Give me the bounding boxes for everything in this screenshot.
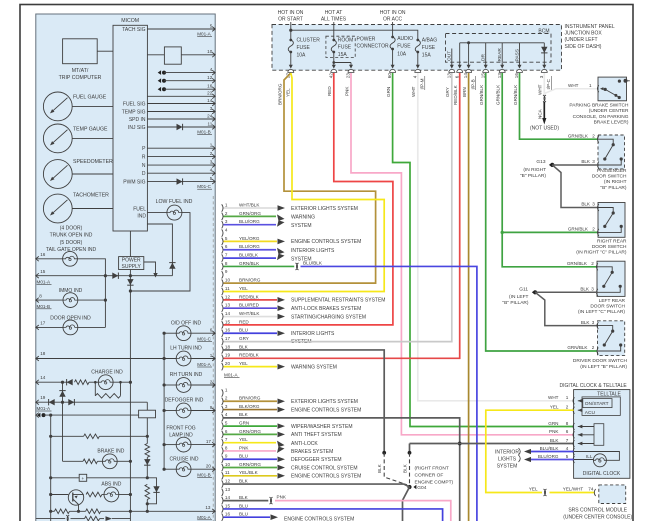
- svg-text:BLK/ORG: BLK/ORG: [239, 404, 260, 409]
- svg-text:1: 1: [210, 143, 213, 148]
- fuse ROOM FUSE 15A: [332, 39, 335, 42]
- svg-text:CORNER OF: CORNER OF: [415, 472, 444, 478]
- MT/AT trip computer block: [63, 39, 98, 64]
- svg-text:2: 2: [225, 211, 228, 216]
- svg-text:EXTERIOR LIGHTS SYSTEM: EXTERIOR LIGHTS SYSTEM: [291, 399, 358, 405]
- svg-text:9: 9: [210, 405, 213, 410]
- wire GRY from BCM pin 13 to M01-A pin 17: [224, 73, 452, 342]
- svg-text:1: 1: [589, 83, 592, 88]
- svg-text:2: 2: [592, 133, 595, 138]
- internal bus to A/BAG fuse: [291, 30, 418, 40]
- svg-text:PASSENGER: PASSENGER: [597, 168, 627, 174]
- vertical from pin19 dot to brake row: [62, 402, 64, 461]
- svg-text:FUEL: FUEL: [133, 206, 146, 212]
- connector M01-B pin 3 wire BLK/ORG to engine controls system: [222, 406, 223, 413]
- driver door switch: [598, 321, 625, 356]
- svg-text:10: 10: [207, 49, 213, 54]
- connector M01-B pin 9 wire BLU to defogger system: [222, 456, 223, 463]
- svg-text:8: 8: [566, 421, 569, 426]
- svg-text:HOT IN ON: HOT IN ON: [380, 10, 406, 16]
- svg-text:12: 12: [207, 75, 213, 80]
- connector M01-A pin 19 wire RED/BLK from BCM: [222, 355, 223, 362]
- feed wire HOT IN ON OR ACC: [392, 22, 394, 37]
- gauge SPEEDOMETER: [43, 160, 72, 189]
- wire to pin 22: [147, 95, 215, 97]
- power supply block: [129, 231, 131, 257]
- svg-text:FUEL GAUGE: FUEL GAUGE: [73, 95, 107, 101]
- svg-text:3: 3: [539, 75, 544, 78]
- BCM stub to pin 6: [459, 43, 461, 62]
- svg-text:TAIL GATE OPEN IND: TAIL GATE OPEN IND: [46, 247, 97, 253]
- svg-text:2: 2: [592, 345, 595, 350]
- svg-text:GRN/BLK: GRN/BLK: [239, 261, 260, 266]
- connector M01-A pin 8 wire GRN/BLK to splice: [222, 263, 223, 270]
- svg-text:YEL: YEL: [239, 286, 248, 291]
- svg-text:"B" PILLAR): "B" PILLAR): [502, 300, 528, 306]
- SRS control module box: [599, 485, 626, 504]
- svg-text:HOT IN ON: HOT IN ON: [278, 10, 304, 16]
- svg-text:16: 16: [514, 73, 519, 79]
- svg-text:17: 17: [206, 439, 212, 444]
- svg-text:11: 11: [225, 470, 230, 475]
- svg-text:(UNDER CENTER: (UNDER CENTER: [589, 108, 629, 114]
- svg-text:BLK: BLK: [580, 287, 590, 292]
- svg-text:M01-A: M01-A: [224, 373, 238, 378]
- svg-text:SUPPLY: SUPPLY: [122, 264, 142, 270]
- diode below power supply junction: [129, 276, 131, 291]
- telltale module box: [582, 397, 620, 416]
- wire BLK from G04 down off page: [403, 487, 410, 521]
- svg-text:BLK: BLK: [239, 344, 249, 349]
- svg-text:(IN RIGHT: (IN RIGHT: [604, 179, 627, 185]
- partial bottom row with splice: [36, 518, 65, 520]
- svg-text:WHT: WHT: [538, 84, 543, 95]
- svg-text:4: 4: [225, 412, 228, 417]
- wire WHT from BCM pin 3 to parking brake switch: [543, 73, 545, 96]
- MICOM block: [113, 25, 147, 231]
- svg-text:POWER: POWER: [122, 258, 141, 264]
- svg-text:JUNCTION BOX: JUNCTION BOX: [565, 31, 603, 37]
- svg-text:DOOR SWITCH: DOOR SWITCH: [592, 244, 627, 250]
- svg-text:LOW FUEL IND: LOW FUEL IND: [156, 199, 193, 205]
- svg-text:13: 13: [225, 487, 231, 492]
- svg-text:DOOR SWITCH: DOOR SWITCH: [592, 174, 627, 180]
- svg-text:2: 2: [210, 151, 213, 156]
- svg-text:19: 19: [40, 395, 46, 400]
- svg-text:RH TURN IND: RH TURN IND: [170, 372, 203, 378]
- svg-text:3: 3: [210, 106, 213, 111]
- svg-text:TEMP GAUGE: TEMP GAUGE: [73, 127, 108, 133]
- svg-text:2: 2: [591, 261, 594, 266]
- svg-text:GRN/BLK: GRN/BLK: [496, 84, 501, 105]
- svg-text:GRN/BLK: GRN/BLK: [567, 261, 588, 266]
- svg-text:1: 1: [225, 202, 228, 207]
- svg-text:M01-A: M01-A: [37, 279, 51, 284]
- svg-text:BLU/ORG: BLU/ORG: [239, 219, 260, 224]
- connector M01-A pin 13 wire BLU/RED to anti-lock brakes system: [222, 305, 223, 312]
- centre branch resistor: [145, 444, 150, 458]
- svg-text:6: 6: [454, 75, 459, 78]
- svg-text:7: 7: [225, 437, 228, 442]
- svg-text:EXTERIOR LIGHTS SYSTEM: EXTERIOR LIGHTS SYSTEM: [291, 206, 358, 212]
- instrument cluster box: [36, 14, 215, 521]
- svg-text:SYSTEM: SYSTEM: [497, 464, 518, 470]
- connector pin 23 at x=351: [349, 65, 353, 69]
- svg-text:42: 42: [328, 73, 333, 79]
- relay box on centre branch: [146, 402, 148, 410]
- svg-text:15A: 15A: [422, 53, 432, 59]
- svg-text:(IN LEFT: (IN LEFT: [509, 294, 529, 300]
- svg-text:GRN: GRN: [239, 421, 249, 426]
- connector M01-A pin 9 no wire: [222, 271, 223, 278]
- svg-text:(IN LEFT "B" PILLAR): (IN LEFT "B" PILLAR): [580, 364, 627, 370]
- svg-text:ENGINE CONTROLS SYSTEM: ENGINE CONTROLS SYSTEM: [284, 516, 354, 521]
- svg-text:BRAKE LEVER): BRAKE LEVER): [594, 120, 629, 126]
- svg-text:3: 3: [592, 320, 595, 325]
- svg-text:(UNDER CENTER CONSOLE): (UNDER CENTER CONSOLE): [563, 514, 632, 520]
- svg-text:I/P-C: I/P-C: [546, 78, 551, 89]
- svg-text:15: 15: [40, 269, 46, 274]
- svg-text:BLU/ORG: BLU/ORG: [538, 454, 559, 459]
- svg-text:DOOR SWITCH: DOOR SWITCH: [590, 304, 625, 310]
- svg-text:HOT AT: HOT AT: [325, 10, 343, 16]
- svg-text:PNK: PNK: [549, 429, 559, 434]
- svg-text:1: 1: [210, 353, 213, 358]
- svg-text:GRN/BLK: GRN/BLK: [568, 133, 589, 138]
- svg-text:DEFOGGER SYSTEM: DEFOGGER SYSTEM: [291, 457, 342, 463]
- connector M01-B pin 4 wire BLK to ground G04: [222, 414, 223, 421]
- svg-text:WHT/BLK: WHT/BLK: [239, 202, 260, 207]
- svg-text:2: 2: [210, 379, 213, 384]
- BCM diode to pin 3: [543, 43, 545, 62]
- svg-text:CRUISE CONTROL SYSTEM: CRUISE CONTROL SYSTEM: [291, 465, 358, 471]
- wire to pin 12: [158, 78, 161, 83]
- svg-text:GRN/ORG: GRN/ORG: [239, 462, 261, 467]
- svg-text:BCM: BCM: [538, 28, 549, 34]
- svg-text:14: 14: [207, 98, 213, 103]
- svg-text:19: 19: [225, 353, 231, 358]
- svg-text:BLK: BLK: [239, 478, 249, 483]
- connector M01-A pin 16 wire BLU to interior lights system: [222, 330, 223, 337]
- svg-text:10A: 10A: [297, 53, 307, 59]
- svg-text:OR START: OR START: [278, 17, 303, 23]
- svg-text:BLK: BLK: [581, 159, 591, 164]
- svg-text:24: 24: [207, 113, 213, 118]
- svg-text:20: 20: [206, 464, 212, 469]
- connector pin 3 at x=544.3: [543, 62, 545, 65]
- fuse A/BAG FUSE 15A: [416, 39, 419, 42]
- wire WHT from pin 4 to digital clock pin 1: [418, 73, 574, 401]
- wire BLU/BLK from splice across to off page bottom: [301, 266, 477, 521]
- connector pin 13 at x=502.2: [501, 62, 503, 65]
- connector M01-A pin 15 wire RED from room fuse: [222, 321, 223, 328]
- svg-text:(UNDER LEFT: (UNDER LEFT: [565, 37, 598, 43]
- svg-text:4: 4: [210, 168, 213, 173]
- BCM pin DR stub: [485, 43, 487, 62]
- feed wire HOT AT ALL TIMES: [333, 22, 335, 40]
- svg-text:YEL: YEL: [529, 487, 538, 492]
- svg-text:WARNING: WARNING: [291, 215, 315, 221]
- clock pin 6 PNK: [573, 431, 574, 438]
- svg-text:D: D: [142, 171, 146, 177]
- wire BLK M01-B pin 12 to G04: [224, 484, 410, 487]
- svg-text:WARNING SYSTEM: WARNING SYSTEM: [291, 364, 337, 370]
- sensor box row: [49, 476, 52, 479]
- svg-text:INSTRUMENT PANEL: INSTRUMENT PANEL: [565, 24, 615, 30]
- svg-text:TRUNK OPEN IND: TRUNK OPEN IND: [50, 233, 93, 239]
- svg-text:WHT/BLK: WHT/BLK: [239, 311, 260, 316]
- svg-text:INJ SIG: INJ SIG: [128, 125, 146, 131]
- svg-text:10A: 10A: [397, 51, 407, 57]
- svg-text:FUSE: FUSE: [397, 44, 411, 50]
- svg-text:M01-C: M01-C: [197, 337, 211, 342]
- svg-text:GRY: GRY: [239, 336, 249, 341]
- svg-text:CLUSTER: CLUSTER: [297, 37, 321, 43]
- svg-text:PNK: PNK: [344, 86, 349, 96]
- svg-text:(IN RIGHT "C" PILLAR): (IN RIGHT "C" PILLAR): [576, 250, 627, 256]
- svg-text:ACU: ACU: [585, 410, 596, 416]
- svg-text:5: 5: [210, 23, 213, 28]
- connector M01-B pin 7 wire YEL to anti-lock brakes system: [222, 439, 223, 446]
- svg-text:M01-B: M01-B: [197, 130, 211, 135]
- connector pin 6 at x=459.7: [459, 62, 461, 65]
- svg-text:16: 16: [207, 84, 213, 89]
- svg-text:ANTI-LOCK BRAKES SYSTEM: ANTI-LOCK BRAKES SYSTEM: [291, 306, 361, 312]
- connector M01-A pin 3 wire BLU/ORG to warning system: [222, 221, 223, 228]
- svg-text:PARKING BRAKE SWITCH: PARKING BRAKE SWITCH: [569, 102, 629, 108]
- dashed ground lead to G04: [409, 453, 411, 485]
- connector face dashed line M01: [212, 196, 214, 521]
- centre branch diode: [146, 457, 148, 478]
- svg-text:8: 8: [225, 445, 228, 450]
- svg-text:FUSE: FUSE: [297, 45, 311, 51]
- connector M01-A pin 20 wire YEL to warning system: [222, 363, 223, 370]
- svg-text:AUDIO: AUDIO: [397, 36, 413, 42]
- svg-text:STARTING/CHARGING SYSTEM: STARTING/CHARGING SYSTEM: [291, 314, 366, 320]
- svg-text:BLU: BLU: [239, 503, 248, 508]
- wire BLK passenger door switch to G13: [552, 164, 598, 166]
- svg-text:YEL: YEL: [550, 405, 559, 410]
- svg-text:4: 4: [412, 75, 417, 78]
- connector M01-B pin 14 wire BLK spliced to PNK: [222, 497, 223, 504]
- fuse CLUSTER FUSE 10A: [289, 39, 292, 42]
- svg-text:20: 20: [225, 361, 231, 366]
- wire BLK M01-B pin 4 to clock ground junction: [224, 418, 460, 521]
- svg-text:(NOT USED): (NOT USED): [530, 126, 559, 132]
- svg-text:"B" PILLAR): "B" PILLAR): [520, 173, 546, 179]
- wire PNK from pin 23 to digital clock pin 6: [351, 73, 574, 435]
- svg-text:SUPPLEMENTAL RESTRAINTS SYSTEM: SUPPLEMENTAL RESTRAINTS SYSTEM: [291, 298, 385, 304]
- BCM internal bus: [460, 42, 545, 44]
- svg-text:GRN/BLK: GRN/BLK: [479, 84, 484, 105]
- svg-text:POWER: POWER: [357, 37, 376, 43]
- svg-text:10: 10: [225, 462, 231, 467]
- svg-text:G13: G13: [536, 159, 545, 165]
- svg-text:FUSE: FUSE: [338, 45, 352, 51]
- svg-text:I/P-M: I/P-M: [420, 78, 425, 89]
- connector pin 4 at x=417.8: [416, 65, 420, 69]
- wire MICOM aux output with diode: [147, 224, 172, 276]
- wire BRN from BCM pin 14 down off page: [468, 73, 470, 521]
- svg-text:3: 3: [592, 159, 595, 164]
- svg-text:5: 5: [210, 176, 213, 181]
- connector M01-B pin 16 wire BLU to engine controls system: [222, 514, 223, 521]
- svg-text:9: 9: [225, 269, 228, 274]
- svg-text:2: 2: [592, 227, 595, 232]
- svg-text:15: 15: [225, 503, 231, 508]
- svg-text:YEL: YEL: [239, 437, 248, 442]
- transistor Q1: [68, 490, 83, 505]
- svg-text:ENGINE CONTROLS SYSTEM: ENGINE CONTROLS SYSTEM: [291, 474, 361, 480]
- svg-text:CONSOLE, ON PARKING: CONSOLE, ON PARKING: [573, 114, 629, 120]
- svg-text:IND: IND: [137, 213, 146, 219]
- svg-text:PNK: PNK: [239, 445, 249, 450]
- svg-text:GRN: GRN: [548, 421, 558, 426]
- BCM pin REAR stub: [501, 43, 503, 62]
- svg-text:23: 23: [346, 73, 351, 79]
- connector pin 42 at x=333.8: [332, 65, 336, 69]
- wire low fuel ind to junction: [130, 213, 190, 291]
- connector pin 27 at x=290.8: [289, 65, 293, 69]
- svg-text:(IN RIGHT: (IN RIGHT: [523, 167, 546, 173]
- wire tachometer to MICOM: [72, 208, 113, 210]
- svg-text:1: 1: [225, 387, 228, 392]
- ground G13: [549, 163, 552, 167]
- wire BLK G13 to right rear door switch: [552, 165, 598, 208]
- svg-text:60: 60: [387, 73, 392, 79]
- connector M01-B pin 6 wire GRN/ORG to anti theft system: [222, 431, 223, 438]
- fuse / junction strip box (hot feeds): [272, 25, 562, 71]
- connector M01-B pin 12 wire BLK to ground G04: [222, 480, 223, 487]
- connector M01-A pin 11 wire YEL from cluster fuse: [222, 288, 223, 295]
- svg-text:FUSE: FUSE: [422, 45, 436, 51]
- svg-text:ROOM: ROOM: [338, 37, 354, 43]
- resistor row to centre branch: [49, 435, 52, 438]
- connector pin 14 at x=468.6: [468, 62, 470, 65]
- wire BLK digital clock pin 7 row: [410, 443, 574, 445]
- svg-text:BLK: BLK: [403, 463, 408, 473]
- svg-text:DIGITAL CLOCK & TELLTALE: DIGITAL CLOCK & TELLTALE: [560, 383, 628, 389]
- svg-text:WIPER/WASHER SYSTEM: WIPER/WASHER SYSTEM: [291, 424, 353, 430]
- power supply bottom junction: [129, 270, 131, 276]
- svg-text:14: 14: [225, 311, 231, 316]
- svg-text:7: 7: [225, 253, 228, 258]
- svg-text:G11: G11: [519, 287, 528, 293]
- svg-text:GRN/BLK: GRN/BLK: [513, 84, 518, 105]
- connector M01-A pin 7 wire BLU/BLK to interior lights system: [222, 254, 223, 261]
- connector M01-B pin 2 wire BRN/ORG to exterior lights system: [222, 398, 223, 405]
- svg-text:I/P-B: I/P-B: [470, 79, 475, 89]
- svg-text:8: 8: [39, 293, 42, 298]
- svg-text:PWM SIG: PWM SIG: [123, 180, 145, 186]
- svg-text:A/BAG: A/BAG: [422, 37, 437, 43]
- svg-text:ANTI THEFT SYSTEM: ANTI THEFT SYSTEM: [291, 432, 342, 438]
- feed wire HOT IN ON OR START: [290, 22, 292, 40]
- svg-text:MT/AT/: MT/AT/: [72, 68, 89, 74]
- svg-text:SIDE OF DASH): SIDE OF DASH): [565, 44, 602, 50]
- svg-text:RED/BLK: RED/BLK: [453, 84, 458, 105]
- svg-text:74: 74: [588, 487, 594, 492]
- svg-text:M01-A: M01-A: [197, 515, 211, 520]
- parking brake switch: [598, 77, 627, 101]
- svg-text:INTERIOR: INTERIOR: [495, 450, 519, 456]
- svg-text:LIGHTS: LIGHTS: [498, 457, 517, 463]
- svg-text:BRN/ORG: BRN/ORG: [239, 396, 261, 401]
- svg-text:ENGINE COMPT): ENGINE COMPT): [415, 479, 454, 485]
- BCM pin OUT stub: [451, 49, 453, 63]
- wire GRN/BLK from BCM pin 15 to driver door switch: [486, 73, 598, 351]
- svg-text:ENGINE CONTROLS SYSTEM: ENGINE CONTROLS SYSTEM: [291, 239, 361, 245]
- svg-text:4: 4: [225, 227, 228, 232]
- fuse AUDIO FUSE 10A: [391, 36, 394, 39]
- svg-text:SRS CONTROL MODULE: SRS CONTROL MODULE: [568, 507, 627, 513]
- svg-text:10: 10: [225, 278, 231, 283]
- svg-text:16: 16: [225, 512, 231, 517]
- svg-text:17: 17: [40, 320, 46, 325]
- svg-text:LH TURN IND: LH TURN IND: [170, 346, 202, 352]
- connector M01-A pin 4 no wire: [222, 229, 223, 236]
- connector M01-A pin 17 wire GRY from BCM OUT: [222, 338, 223, 345]
- svg-text:14: 14: [40, 375, 46, 380]
- clock pin 4 BLU/BLK illumination: [573, 448, 574, 455]
- svg-text:M01-A: M01-A: [197, 32, 211, 37]
- svg-text:GRY: GRY: [445, 87, 450, 97]
- svg-text:ON/START: ON/START: [585, 401, 609, 407]
- svg-text:SYSTEM: SYSTEM: [291, 223, 312, 229]
- connector M01-A pin 12 wire RED/BLK to supplemental restraints system: [222, 296, 223, 303]
- svg-text:SPD IN: SPD IN: [129, 117, 146, 123]
- svg-text:(5 DOOR): (5 DOOR): [60, 240, 83, 246]
- svg-text:TEMP SIG: TEMP SIG: [122, 109, 146, 115]
- svg-text:BLK: BLK: [377, 463, 382, 473]
- connector M01-A pin 10 wire BRN/ORG from cluster fuse: [222, 279, 223, 286]
- left rear door switch: [597, 261, 625, 296]
- svg-text:YEL: YEL: [239, 361, 248, 366]
- svg-text:4: 4: [566, 446, 569, 451]
- room fuse output split to pins 42 and 23: [333, 52, 335, 66]
- shunt resistor under charge ind lamp: [94, 381, 97, 384]
- svg-text:INTERIOR LIGHTS: INTERIOR LIGHTS: [291, 248, 335, 254]
- svg-text:O/D OFF IND: O/D OFF IND: [171, 320, 202, 326]
- connector M01-B pin 13 no wire: [222, 489, 223, 496]
- svg-text:3: 3: [210, 159, 213, 164]
- clock display block: [594, 424, 604, 446]
- svg-text:ILL: ILL: [586, 454, 593, 459]
- svg-text:17: 17: [225, 336, 231, 341]
- svg-text:BRN/ORG: BRN/ORG: [277, 83, 282, 105]
- svg-text:YEL/WHT: YEL/WHT: [563, 487, 584, 492]
- telltale pin 1 WHT: [573, 397, 574, 404]
- BCM pin PASS stub: [519, 43, 521, 62]
- svg-text:ANTI-LOCK: ANTI-LOCK: [291, 441, 318, 447]
- svg-text:WHT: WHT: [411, 86, 416, 97]
- wire BLK left rear door switch to G11: [535, 291, 597, 293]
- wire PNK from splice down off page: [275, 501, 451, 521]
- svg-text:N: N: [142, 163, 146, 169]
- svg-text:DOOR OPEN IND: DOOR OPEN IND: [50, 315, 91, 321]
- svg-text:6: 6: [566, 429, 569, 434]
- wire YEL from pin 27 to M01-A pin 11: [224, 73, 385, 292]
- svg-text:OR ACC: OR ACC: [383, 17, 403, 23]
- wire BLU M01-B pin 15 down off page: [224, 509, 443, 521]
- svg-text:WHT: WHT: [568, 83, 579, 88]
- svg-text:BLU/RED: BLU/RED: [239, 303, 260, 308]
- svg-text:TRIP COMPUTER: TRIP COMPUTER: [59, 75, 102, 81]
- connector M01-A pin 1 wire WHT/BLK to exterior lights system: [222, 204, 223, 211]
- interface box on pin 10 line: [147, 54, 164, 56]
- wire fuel gauge to MICOM: [72, 105, 113, 107]
- svg-text:11: 11: [208, 121, 213, 126]
